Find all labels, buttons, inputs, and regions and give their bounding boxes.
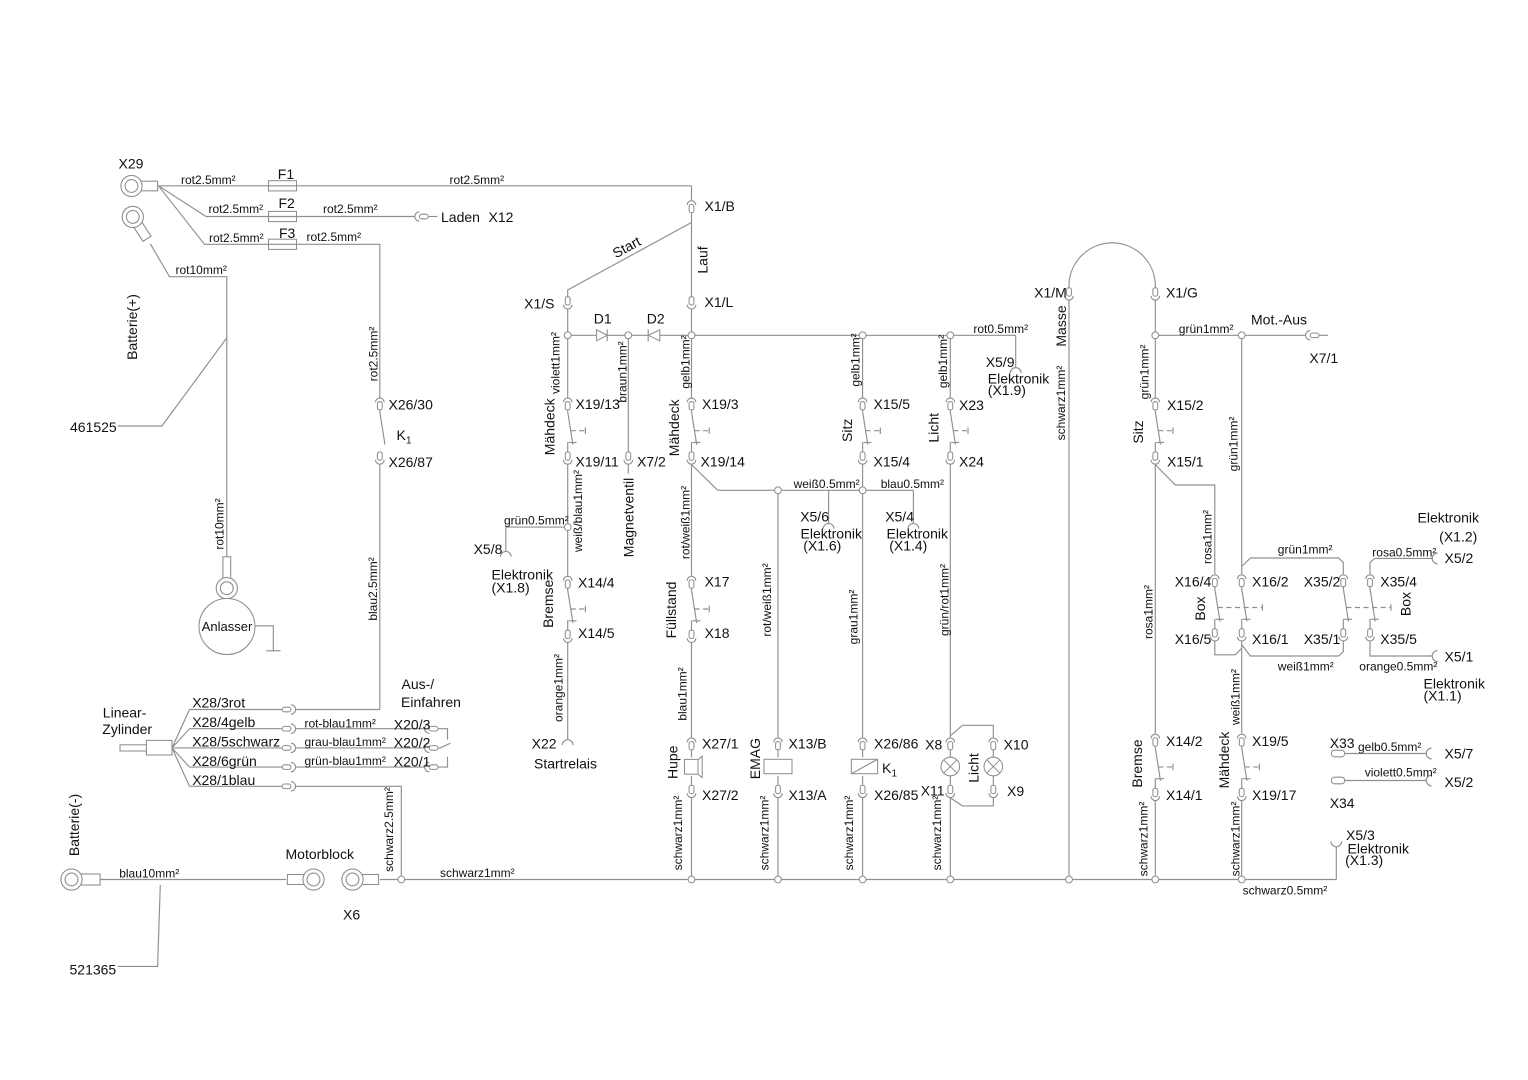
svg-text:schwarz0.5mm²: schwarz0.5mm² — [1243, 883, 1328, 897]
svg-text:X34: X34 — [1330, 795, 1355, 811]
svg-text:gelb1mm²: gelb1mm² — [936, 335, 950, 388]
svg-text:X7/1: X7/1 — [1309, 350, 1338, 366]
svg-text:violett0.5mm²: violett0.5mm² — [1365, 766, 1437, 780]
svg-text:(X1.3): (X1.3) — [1345, 852, 1383, 868]
svg-text:Bremse: Bremse — [540, 579, 556, 627]
svg-text:rot2.5mm²: rot2.5mm² — [209, 231, 264, 245]
svg-text:X5/6: X5/6 — [800, 508, 829, 524]
svg-text:EMAG: EMAG — [747, 738, 763, 779]
svg-text:Mot.-Aus: Mot.-Aus — [1251, 311, 1307, 327]
svg-text:Batterie(-): Batterie(-) — [66, 794, 82, 856]
svg-text:rot2.5mm²: rot2.5mm² — [323, 202, 378, 216]
svg-text:X6: X6 — [343, 907, 360, 923]
svg-text:X33: X33 — [1330, 735, 1355, 751]
svg-text:1: 1 — [892, 769, 898, 780]
svg-text:Mähdeck: Mähdeck — [666, 398, 682, 456]
svg-text:X27/2: X27/2 — [702, 787, 739, 803]
svg-text:F1: F1 — [278, 166, 295, 182]
svg-text:Bremse: Bremse — [1129, 739, 1145, 787]
svg-text:X15/5: X15/5 — [874, 396, 911, 412]
svg-text:Lauf: Lauf — [695, 246, 711, 273]
svg-text:grün1mm²: grün1mm² — [1179, 322, 1234, 336]
svg-text:X28/4gelb: X28/4gelb — [192, 714, 255, 730]
svg-text:Masse: Masse — [1053, 305, 1069, 346]
svg-text:X16/1: X16/1 — [1252, 631, 1289, 647]
svg-text:schwarz1mm²: schwarz1mm² — [758, 796, 772, 871]
svg-text:X5/4: X5/4 — [885, 508, 914, 524]
svg-text:Mähdeck: Mähdeck — [1216, 731, 1232, 789]
svg-text:weiß1mm²: weiß1mm² — [1277, 659, 1334, 673]
svg-text:Startrelais: Startrelais — [534, 755, 597, 771]
svg-text:X18: X18 — [705, 625, 730, 641]
svg-text:grün/rot1mm²: grün/rot1mm² — [937, 564, 951, 636]
svg-text:rot2.5mm²: rot2.5mm² — [450, 173, 505, 187]
svg-text:X7/2: X7/2 — [637, 454, 666, 470]
svg-text:rot2.5mm²: rot2.5mm² — [181, 173, 236, 187]
svg-text:X35/5: X35/5 — [1380, 631, 1417, 647]
svg-text:F3: F3 — [279, 225, 296, 241]
svg-text:rot2.5mm²: rot2.5mm² — [307, 230, 362, 244]
svg-text:X12: X12 — [489, 209, 514, 225]
svg-text:Laden: Laden — [441, 209, 480, 225]
svg-text:X28/5schwarz: X28/5schwarz — [192, 733, 280, 749]
svg-text:X20/1: X20/1 — [394, 753, 431, 769]
svg-text:X26/87: X26/87 — [389, 454, 434, 470]
svg-text:orange0.5mm²: orange0.5mm² — [1359, 659, 1437, 673]
svg-text:grau1mm²: grau1mm² — [846, 590, 860, 645]
svg-text:blau0.5mm²: blau0.5mm² — [881, 477, 944, 491]
svg-text:(X1.2): (X1.2) — [1439, 528, 1477, 544]
svg-text:X1/S: X1/S — [524, 295, 554, 311]
svg-text:X14/1: X14/1 — [1166, 787, 1203, 803]
svg-text:Anlasser: Anlasser — [202, 619, 253, 634]
svg-text:X5/9: X5/9 — [986, 354, 1015, 370]
svg-text:X1/L: X1/L — [705, 294, 734, 310]
svg-text:X1/B: X1/B — [705, 198, 735, 214]
svg-text:weiß0.5mm²: weiß0.5mm² — [793, 477, 860, 491]
svg-text:X20/2: X20/2 — [394, 734, 431, 750]
svg-text:X16/4: X16/4 — [1175, 573, 1212, 589]
svg-text:X5/7: X5/7 — [1445, 745, 1474, 761]
svg-text:K: K — [882, 760, 892, 776]
svg-text:X35/1: X35/1 — [1304, 631, 1341, 647]
svg-text:X1/G: X1/G — [1166, 284, 1198, 300]
svg-text:X14/4: X14/4 — [578, 574, 615, 590]
svg-text:X5/2: X5/2 — [1445, 550, 1474, 566]
svg-text:X10: X10 — [1004, 736, 1029, 752]
svg-text:Magnetventil: Magnetventil — [620, 478, 636, 557]
svg-text:schwarz1mm²: schwarz1mm² — [1136, 802, 1150, 877]
svg-text:grün1mm²: grün1mm² — [1278, 542, 1333, 556]
svg-text:grau-blau1mm²: grau-blau1mm² — [305, 735, 386, 749]
svg-text:rot2.5mm²: rot2.5mm² — [367, 327, 381, 382]
svg-text:schwarz1mm²: schwarz1mm² — [1228, 802, 1242, 877]
svg-text:X26/85: X26/85 — [874, 787, 919, 803]
svg-text:schwarz1mm²: schwarz1mm² — [1054, 366, 1068, 441]
svg-text:D1: D1 — [594, 310, 612, 326]
svg-text:X28/6grün: X28/6grün — [192, 753, 257, 769]
svg-text:grün-blau1mm²: grün-blau1mm² — [305, 754, 386, 768]
svg-text:X17: X17 — [705, 573, 730, 589]
svg-text:X13/A: X13/A — [789, 787, 828, 803]
svg-text:(X1.8): (X1.8) — [492, 579, 530, 595]
svg-text:Licht: Licht — [925, 413, 941, 443]
svg-text:X27/1: X27/1 — [702, 736, 739, 752]
svg-text:Sitz: Sitz — [1130, 420, 1146, 443]
svg-text:K: K — [397, 427, 407, 443]
svg-text:(X1.1): (X1.1) — [1424, 687, 1462, 703]
svg-text:(X1.6): (X1.6) — [803, 537, 841, 553]
svg-text:X35/2: X35/2 — [1304, 573, 1341, 589]
svg-text:X5/8: X5/8 — [474, 541, 503, 557]
svg-text:X8: X8 — [925, 736, 942, 752]
svg-text:schwarz1mm²: schwarz1mm² — [842, 796, 856, 871]
svg-text:gelb1mm²: gelb1mm² — [849, 333, 863, 386]
svg-text:X15/1: X15/1 — [1167, 453, 1204, 469]
svg-text:X14/5: X14/5 — [578, 625, 615, 641]
svg-text:X22: X22 — [532, 735, 557, 751]
svg-text:Licht: Licht — [965, 753, 981, 783]
svg-text:X29: X29 — [119, 156, 144, 172]
svg-text:rosa0.5mm²: rosa0.5mm² — [1372, 545, 1436, 559]
svg-text:schwarz1mm²: schwarz1mm² — [440, 866, 515, 880]
svg-text:X1/M: X1/M — [1034, 284, 1067, 300]
svg-text:Linear-: Linear- — [103, 704, 147, 720]
svg-text:X19/17: X19/17 — [1252, 787, 1297, 803]
svg-text:X14/2: X14/2 — [1166, 733, 1203, 749]
svg-text:Aus-/: Aus-/ — [402, 676, 435, 692]
svg-text:X24: X24 — [959, 454, 984, 470]
svg-text:X16/5: X16/5 — [1175, 631, 1212, 647]
svg-text:Batterie(+): Batterie(+) — [124, 294, 140, 360]
svg-text:X19/14: X19/14 — [701, 454, 746, 470]
svg-text:blau2.5mm²: blau2.5mm² — [366, 557, 380, 620]
svg-text:weiß1mm²: weiß1mm² — [1228, 669, 1242, 726]
svg-text:rosa1mm²: rosa1mm² — [1141, 585, 1155, 639]
svg-text:weiß/blau1mm²: weiß/blau1mm² — [571, 470, 585, 553]
svg-text:grün1mm²: grün1mm² — [1226, 417, 1240, 472]
svg-text:1: 1 — [406, 435, 412, 446]
svg-text:X28/1blau: X28/1blau — [192, 772, 255, 788]
svg-text:Elektronik: Elektronik — [1418, 509, 1480, 525]
svg-text:X28/3rot: X28/3rot — [192, 694, 245, 710]
svg-text:blau10mm²: blau10mm² — [119, 866, 179, 880]
svg-text:X26/86: X26/86 — [874, 736, 919, 752]
svg-text:Box: Box — [1397, 592, 1413, 616]
svg-text:rot2.5mm²: rot2.5mm² — [209, 202, 264, 216]
svg-text:X13/B: X13/B — [789, 736, 827, 752]
svg-text:Hupe: Hupe — [664, 745, 680, 779]
svg-text:X9: X9 — [1007, 783, 1024, 799]
svg-text:Zylinder: Zylinder — [102, 721, 152, 737]
svg-text:Sitz: Sitz — [839, 419, 855, 442]
svg-text:X19/11: X19/11 — [576, 454, 620, 470]
svg-text:rot/weiß1mm²: rot/weiß1mm² — [679, 486, 693, 559]
svg-text:(X1.4): (X1.4) — [889, 537, 927, 553]
svg-text:Mähdeck: Mähdeck — [542, 397, 558, 455]
svg-text:violett1mm²: violett1mm² — [549, 332, 563, 394]
svg-text:schwarz1mm²: schwarz1mm² — [930, 796, 944, 871]
svg-text:X5/1: X5/1 — [1445, 648, 1474, 664]
svg-text:Einfahren: Einfahren — [401, 694, 461, 710]
svg-text:rot10mm²: rot10mm² — [213, 498, 227, 549]
svg-text:rosa1mm²: rosa1mm² — [1200, 510, 1214, 564]
svg-text:X19/3: X19/3 — [702, 396, 739, 412]
svg-text:X19/5: X19/5 — [1252, 733, 1289, 749]
svg-text:X26/30: X26/30 — [389, 396, 434, 412]
svg-text:blau1mm²: blau1mm² — [675, 667, 689, 720]
svg-text:(X1.9): (X1.9) — [988, 382, 1026, 398]
svg-text:461525: 461525 — [70, 419, 117, 435]
svg-text:X16/2: X16/2 — [1252, 573, 1289, 589]
svg-text:X23: X23 — [959, 397, 984, 413]
svg-text:Box: Box — [1192, 596, 1208, 620]
svg-text:rot10mm²: rot10mm² — [176, 263, 227, 277]
svg-text:schwarz2.5mm²: schwarz2.5mm² — [382, 787, 396, 872]
svg-text:gelb0.5mm²: gelb0.5mm² — [1358, 740, 1421, 754]
svg-text:X15/2: X15/2 — [1167, 397, 1204, 413]
svg-text:Motorblock: Motorblock — [286, 846, 355, 862]
svg-text:D2: D2 — [647, 310, 665, 326]
svg-text:grün1mm²: grün1mm² — [1137, 345, 1151, 400]
svg-text:gelb1mm²: gelb1mm² — [679, 335, 693, 388]
svg-text:rot-blau1mm²: rot-blau1mm² — [305, 716, 376, 730]
svg-text:rot/weiß1mm²: rot/weiß1mm² — [760, 563, 774, 636]
svg-text:schwarz1mm²: schwarz1mm² — [671, 796, 685, 871]
svg-text:X15/4: X15/4 — [874, 454, 911, 470]
svg-text:braun1mm²: braun1mm² — [616, 341, 630, 402]
svg-text:X20/3: X20/3 — [394, 716, 431, 732]
svg-text:grün0.5mm²: grün0.5mm² — [504, 513, 569, 527]
svg-text:X19/13: X19/13 — [576, 396, 621, 412]
svg-text:rot0.5mm²: rot0.5mm² — [973, 322, 1028, 336]
svg-text:521365: 521365 — [70, 961, 117, 977]
svg-text:F2: F2 — [279, 195, 296, 211]
svg-text:Füllstand: Füllstand — [663, 582, 679, 639]
svg-text:X5/2: X5/2 — [1445, 774, 1474, 790]
svg-text:X35/4: X35/4 — [1380, 573, 1417, 589]
svg-text:orange1mm²: orange1mm² — [551, 654, 565, 722]
